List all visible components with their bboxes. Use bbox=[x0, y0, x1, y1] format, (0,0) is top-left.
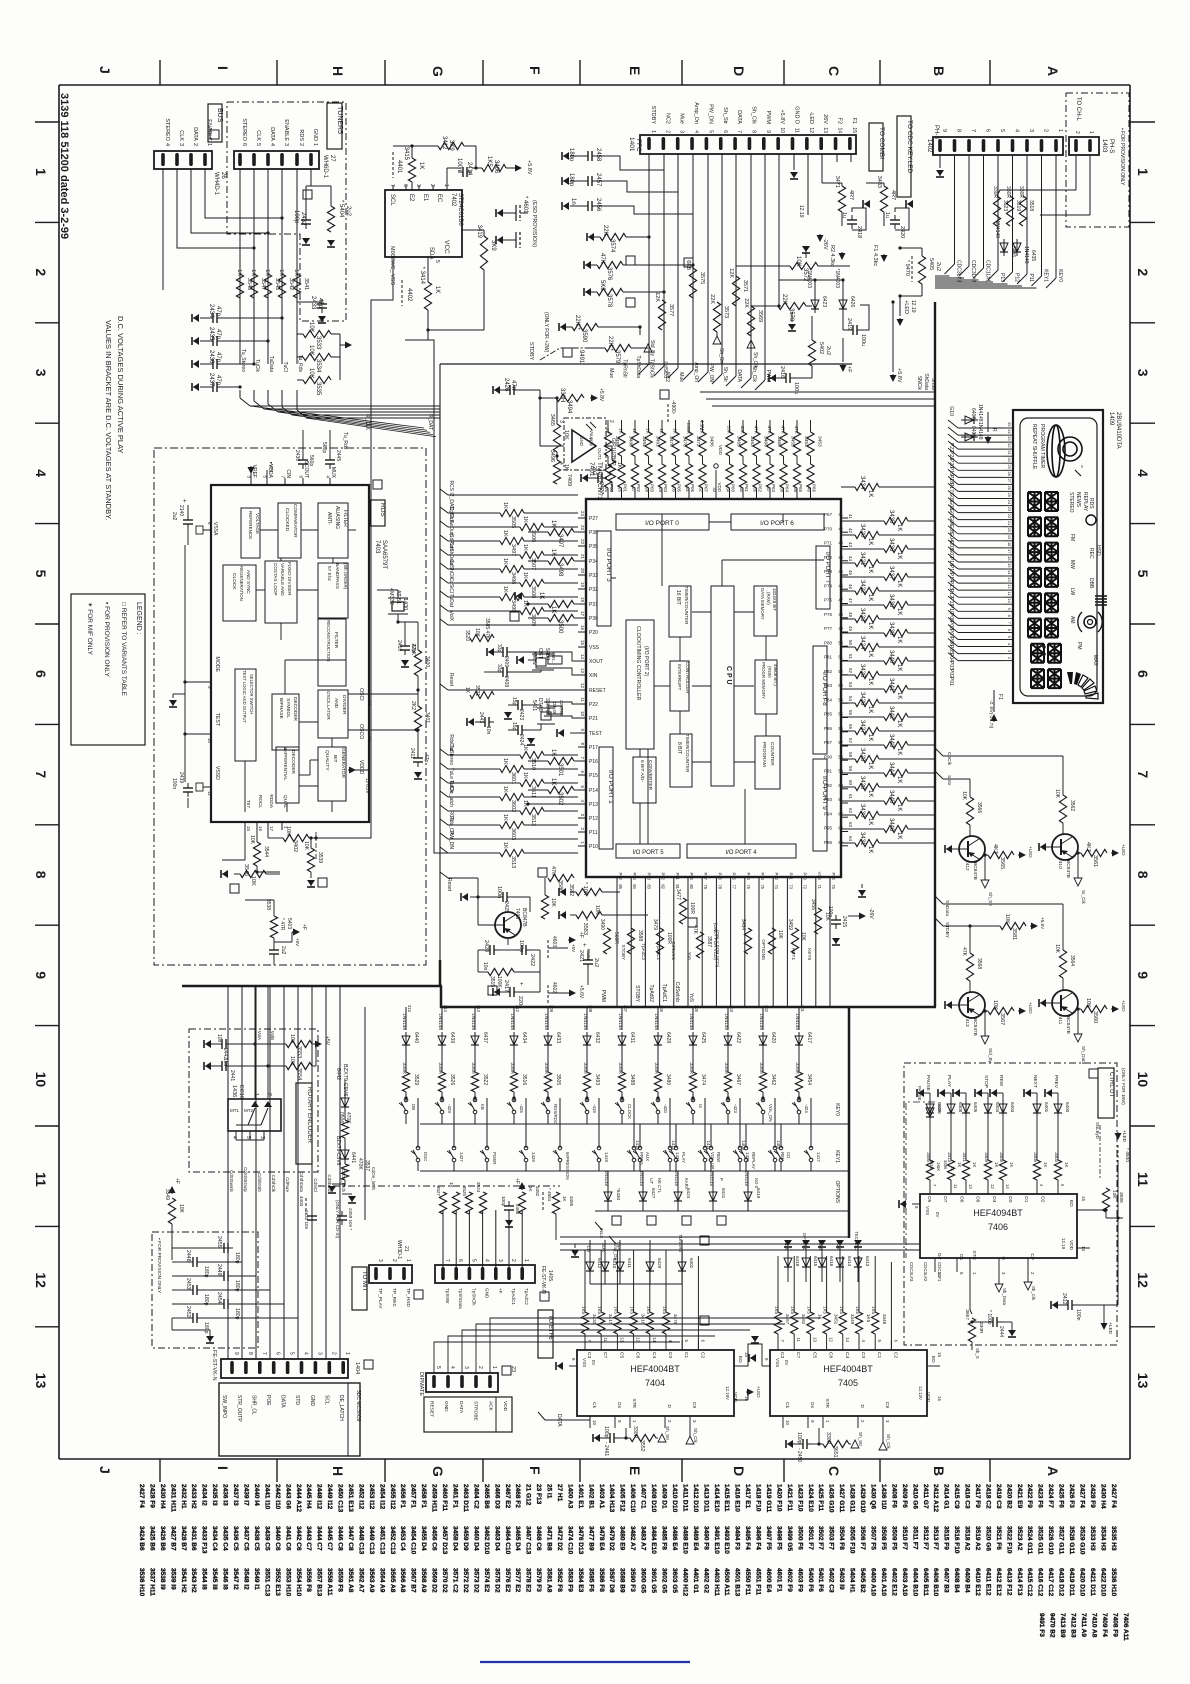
capacitor 33p 2408 bbox=[498, 671, 503, 673]
resistor 330R 3462 bbox=[759, 1072, 766, 1092]
svg-text:3412: 3412 bbox=[441, 136, 447, 150]
svg-text:DBB: DBB bbox=[1088, 578, 1094, 589]
svg-text:YoS: YoS bbox=[688, 993, 694, 1003]
svg-text:1K: 1K bbox=[522, 544, 528, 551]
svg-text:2431 10n: 2431 10n bbox=[304, 1210, 309, 1230]
svg-text:RDS/RDC: RDS/RDC bbox=[553, 1104, 558, 1124]
wire WH6D-1 gnd pin bbox=[310, 169, 312, 186]
svg-text:3496: 3496 bbox=[549, 450, 555, 462]
svg-text:3505: 3505 bbox=[510, 516, 516, 528]
svg-text:2445: 2445 bbox=[335, 450, 341, 461]
triangle Sh_Str transistor bbox=[984, 855, 986, 880]
svg-text:CdSwInb: CdSwInb bbox=[671, 941, 676, 960]
svg-text:51: 51 bbox=[838, 655, 843, 660]
triangle Sh_Clk 7404 bbox=[686, 1436, 694, 1444]
svg-text:6424: 6424 bbox=[686, 1188, 691, 1199]
svg-text:74: 74 bbox=[774, 884, 779, 889]
svg-text:RDDA: RDDA bbox=[268, 794, 274, 808]
resistor 47K 3587 vertical bbox=[696, 932, 703, 958]
diode 1N4148 6434 bbox=[513, 1032, 515, 1049]
svg-text:3581 A8: 3581 A8 bbox=[546, 1568, 553, 1593]
svg-text:10n: 10n bbox=[485, 726, 491, 735]
svg-text:3490: 3490 bbox=[599, 919, 605, 930]
svg-text:6409 B4: 6409 B4 bbox=[964, 1568, 971, 1593]
CPU box bbox=[711, 586, 734, 786]
svg-text:2: 2 bbox=[429, 184, 435, 187]
svg-text:3497 F5: 3497 F5 bbox=[765, 1526, 772, 1550]
gnd caps group bbox=[171, 1318, 173, 1330]
svg-text:13: 13 bbox=[968, 1184, 973, 1189]
svg-text:P51: P51 bbox=[675, 873, 680, 881]
cap 2418 hook bbox=[852, 208, 866, 230]
svg-text:1409: 1409 bbox=[741, 1140, 746, 1150]
IO PORT 9 box bbox=[813, 759, 827, 851]
svg-text:3561 A8: 3561 A8 bbox=[347, 1568, 354, 1593]
svg-text:3571 C2: 3571 C2 bbox=[452, 1568, 459, 1593]
svg-text:1K: 1K bbox=[250, 269, 256, 276]
svg-text:P40: P40 bbox=[803, 873, 808, 881]
svg-text:C P U: C P U bbox=[725, 666, 732, 685]
svg-text:RECONSTRUCTION: RECONSTRUCTION bbox=[326, 620, 331, 661]
svg-text:3402: 3402 bbox=[292, 840, 298, 852]
svg-text:STR: STR bbox=[631, 1398, 637, 1408]
svg-text:2443 G6: 2443 G6 bbox=[284, 1484, 291, 1509]
svg-text:12.19: 12.19 bbox=[1061, 1238, 1066, 1250]
wires bottom bus rows bbox=[560, 1236, 849, 1238]
diode 1N4148 6440 bbox=[405, 1032, 407, 1049]
svg-text:10n: 10n bbox=[482, 962, 488, 971]
svg-text:330R: 330R bbox=[617, 1063, 623, 1075]
svg-text:12.19: 12.19 bbox=[798, 205, 804, 218]
svg-text:49: 49 bbox=[838, 626, 843, 631]
svg-text:1K: 1K bbox=[867, 566, 873, 573]
resistor 3520 10K bbox=[470, 634, 494, 641]
svg-text:6423: 6423 bbox=[821, 296, 827, 307]
svg-text:TpAdC1: TpAdC1 bbox=[656, 943, 661, 960]
svg-text:1404: 1404 bbox=[354, 1362, 360, 1374]
svg-text:P11: P11 bbox=[1028, 273, 1034, 282]
svg-text:ST24C01B6: ST24C01B6 bbox=[457, 193, 463, 226]
svg-text:KEY1: KEY1 bbox=[1043, 269, 1049, 282]
svg-text:3590: 3590 bbox=[581, 329, 587, 343]
resistor 330R 3467 bbox=[724, 1072, 731, 1092]
svg-text:6403 A10: 6403 A10 bbox=[901, 1568, 908, 1596]
svg-text:7402: 7402 bbox=[450, 193, 456, 207]
svg-text:3583 F9: 3583 F9 bbox=[567, 1568, 574, 1592]
svg-text:PWM: PWM bbox=[600, 990, 606, 1002]
wire t57 rdcl bbox=[244, 830, 246, 860]
DATA MEMORY box bbox=[754, 586, 777, 636]
svg-text:23: 23 bbox=[580, 525, 585, 531]
svg-text:8: 8 bbox=[956, 129, 962, 132]
svg-text:P83: P83 bbox=[824, 683, 833, 688]
svg-text:P42: P42 bbox=[774, 873, 779, 881]
svg-text:▸VP1: ▸VP1 bbox=[269, 462, 274, 473]
svg-text:47K: 47K bbox=[780, 425, 786, 434]
svg-text:54: 54 bbox=[838, 697, 843, 702]
resistor 330R 3474 bbox=[689, 1072, 696, 1092]
svg-text:17: 17 bbox=[580, 611, 585, 617]
capacitor 100p 2461 bbox=[605, 1437, 610, 1439]
svg-text:1405: 1405 bbox=[547, 1270, 553, 1281]
svg-text:3553: 3553 bbox=[296, 1046, 302, 1058]
svg-text:47K: 47K bbox=[599, 253, 605, 264]
resistor 22K 3569 vertical bbox=[747, 306, 754, 336]
svg-text:1406 C10: 1406 C10 bbox=[629, 1484, 636, 1513]
svg-text:▪ FOR PROVISION ONLY: ▪ FOR PROVISION ONLY bbox=[103, 602, 110, 677]
svg-text:3478 E4: 3478 E4 bbox=[598, 1526, 605, 1551]
svg-text:P71: P71 bbox=[824, 541, 833, 546]
ROTARY ENCODER label box bbox=[296, 1083, 312, 1164]
resistor 1K 3501 bbox=[548, 757, 574, 764]
svg-text:3441: 3441 bbox=[888, 678, 894, 692]
svg-text:3441 C6: 3441 C6 bbox=[284, 1526, 291, 1551]
svg-text:1K: 1K bbox=[957, 1162, 962, 1167]
svg-text:2409: 2409 bbox=[503, 656, 509, 667]
svg-text:13: 13 bbox=[1007, 577, 1012, 582]
svg-text:10K: 10K bbox=[726, 425, 732, 434]
blue underline artifact bbox=[480, 1661, 690, 1663]
svg-text:SAA6579T: SAA6579T bbox=[381, 540, 387, 569]
svg-text:2461 F1: 2461 F1 bbox=[452, 1484, 459, 1508]
svg-text:P94: P94 bbox=[824, 811, 833, 816]
svg-text:3507 F5: 3507 F5 bbox=[870, 1526, 877, 1550]
svg-text:O0: O0 bbox=[1007, 1196, 1013, 1203]
svg-text:3465 D4: 3465 D4 bbox=[514, 1526, 521, 1551]
svg-text:Amp_On: Amp_On bbox=[693, 102, 699, 124]
svg-text:3485: 3485 bbox=[569, 1196, 574, 1207]
resistor bank 1K 3434-3447 rows bbox=[855, 483, 879, 490]
capacitor 2420 10n bbox=[485, 949, 490, 951]
resistor 47K 3568 vertical bbox=[966, 953, 973, 981]
svg-text:3494: 3494 bbox=[566, 400, 572, 414]
svg-text:3578 E2: 3578 E2 bbox=[525, 1568, 532, 1593]
svg-text:21: 21 bbox=[580, 554, 585, 560]
svg-text:1N4148: 1N4148 bbox=[1023, 246, 1029, 264]
resistor 3538 47R and 5403 2u2 bbox=[270, 916, 277, 938]
svg-text:NO-S: NO-S bbox=[754, 1178, 759, 1189]
resistor 330R 3480 bbox=[654, 1072, 661, 1092]
capacitor 2414 100n bbox=[458, 171, 463, 173]
svg-text:P46: P46 bbox=[717, 873, 722, 881]
svg-text:3549: 3549 bbox=[164, 1189, 170, 1200]
svg-text:3567 B7: 3567 B7 bbox=[410, 1568, 417, 1593]
svg-text:R2 4.3kc: R2 4.3kc bbox=[829, 245, 835, 267]
resistor 10n 3515 100K bbox=[488, 968, 514, 975]
svg-text:13: 13 bbox=[822, 127, 828, 133]
key column wire 308 bbox=[586, 1007, 588, 1030]
svg-text:7408: 7408 bbox=[514, 908, 520, 919]
svg-text:G: G bbox=[430, 1466, 446, 1477]
resistor 3465 10K vertical bbox=[553, 424, 560, 452]
svg-text:5: 5 bbox=[1135, 570, 1151, 578]
svg-text:3448 C13: 3448 C13 bbox=[357, 1526, 364, 1555]
svg-text:3449: 3449 bbox=[850, 1314, 855, 1325]
gnd 2425 bbox=[462, 896, 468, 898]
svg-text:3: 3 bbox=[1028, 129, 1034, 132]
svg-text:7412 B3: 7412 B3 bbox=[1070, 1613, 1077, 1638]
svg-text:3564: 3564 bbox=[1069, 955, 1075, 966]
svg-text:2459 H11: 2459 H11 bbox=[431, 1484, 438, 1512]
svg-text:3554 H10: 3554 H10 bbox=[295, 1568, 302, 1597]
svg-text:ShData: ShData bbox=[944, 900, 950, 916]
svg-text:2420 B2: 2420 B2 bbox=[1005, 1484, 1012, 1509]
svg-text:STOBY: STOBY bbox=[621, 945, 626, 961]
svg-text:1426 G10: 1426 G10 bbox=[828, 1484, 835, 1513]
svg-text:(RAM): (RAM) bbox=[766, 592, 771, 605]
svg-text:47p: 47p bbox=[215, 306, 221, 317]
svg-text:11: 11 bbox=[33, 1172, 49, 1187]
svg-text:Sh_Str: Sh_Str bbox=[722, 107, 728, 124]
svg-text:1K: 1K bbox=[867, 818, 873, 825]
RDS chip box 7403 SAA6579T bbox=[211, 485, 369, 822]
svg-text:PWM: PWM bbox=[765, 370, 771, 382]
svg-text:E1: E1 bbox=[422, 194, 428, 202]
svg-text:T57: T57 bbox=[245, 800, 251, 809]
svg-text:56: 56 bbox=[838, 726, 843, 731]
svg-text:2445 H4: 2445 H4 bbox=[305, 1484, 312, 1509]
svg-text:VSS: VSS bbox=[589, 645, 600, 651]
svg-text:P44: P44 bbox=[746, 873, 751, 881]
svg-text:32K768: 32K768 bbox=[559, 700, 564, 716]
svg-text:P27: P27 bbox=[589, 516, 598, 522]
svg-text:3471: 3471 bbox=[834, 176, 840, 188]
svg-text:3539: 3539 bbox=[317, 852, 323, 863]
square WH3D bbox=[414, 1290, 423, 1299]
svg-text:10K: 10K bbox=[289, 1056, 295, 1066]
svg-text:44: 44 bbox=[838, 555, 843, 560]
svg-text:STEREO: STEREO bbox=[241, 118, 247, 141]
svg-text:2: 2 bbox=[1043, 129, 1049, 132]
svg-text:3557 B13: 3557 B13 bbox=[316, 1568, 323, 1597]
svg-text:11: 11 bbox=[1135, 1172, 1151, 1187]
svg-text:1N4148: 1N4148 bbox=[794, 1013, 800, 1030]
svg-text:PROGR MEMORY: PROGR MEMORY bbox=[761, 662, 766, 699]
svg-text:16: 16 bbox=[937, 1396, 942, 1401]
svg-text:VSS: VSS bbox=[775, 1358, 780, 1367]
svg-text:P43: P43 bbox=[760, 873, 765, 881]
svg-text:1N4148: 1N4148 bbox=[977, 404, 983, 422]
svg-text:6412 E12: 6412 E12 bbox=[995, 1568, 1002, 1596]
svg-text:3511: 3511 bbox=[530, 786, 536, 798]
svg-text:ROTARY ENCODER: ROTARY ENCODER bbox=[306, 1087, 312, 1144]
svg-text:3562: 3562 bbox=[1069, 800, 1075, 811]
svg-text:3508: 3508 bbox=[530, 586, 536, 598]
svg-text:6: 6 bbox=[1135, 670, 1151, 678]
encoder 1436 EC16 bbox=[228, 1099, 281, 1131]
svg-text:2449: 2449 bbox=[216, 1264, 222, 1276]
svg-text:B: B bbox=[931, 66, 947, 76]
svg-text:D: D bbox=[859, 1405, 865, 1409]
svg-text:7: 7 bbox=[1135, 770, 1151, 778]
svg-text:3456: 3456 bbox=[810, 899, 816, 910]
op-amp 7409 GIR1U2B0P bbox=[564, 418, 606, 470]
svg-text:PH-S: PH-S bbox=[933, 125, 939, 139]
svg-text:3439: 3439 bbox=[888, 622, 894, 636]
svg-text:1N4148: 1N4148 bbox=[401, 1013, 407, 1030]
svg-text:3545 I8: 3545 I8 bbox=[211, 1568, 218, 1590]
svg-text:-420: -420 bbox=[663, 1104, 668, 1113]
svg-text:7: 7 bbox=[970, 129, 976, 132]
svg-text:46: 46 bbox=[838, 583, 843, 588]
svg-text:P86: P86 bbox=[824, 726, 833, 731]
svg-text:7: 7 bbox=[444, 1259, 450, 1262]
svg-text:DATA: DATA bbox=[556, 1414, 562, 1427]
capacitor 2425 100n bbox=[498, 896, 503, 898]
display bus thick vertical bbox=[934, 302, 936, 1007]
dbb bars icon bbox=[1095, 595, 1107, 597]
svg-text:8: 8 bbox=[247, 1352, 253, 1355]
svg-text:DATA: DATA bbox=[736, 110, 742, 124]
svg-text:2427 F4: 2427 F4 bbox=[1079, 1484, 1086, 1508]
TO MIT box bbox=[352, 1267, 367, 1310]
arrow +LED 7404 bbox=[734, 1399, 748, 1401]
svg-text:DIVIDER: DIVIDER bbox=[341, 695, 347, 715]
pin VSSA bbox=[203, 529, 211, 531]
svg-text:6440: 6440 bbox=[413, 1032, 419, 1043]
svg-text:P01: P01 bbox=[948, 677, 954, 686]
svg-text:Oe': Oe' bbox=[936, 1253, 942, 1260]
svg-text:Sh_Clk: Sh_Clk bbox=[1031, 1286, 1036, 1301]
svg-text:3426: 3426 bbox=[859, 692, 865, 706]
svg-text:41: 41 bbox=[848, 514, 853, 520]
svg-text:DECODER: DECODER bbox=[290, 750, 296, 775]
svg-text:+LED: +LED bbox=[756, 1386, 761, 1398]
svg-text:CdSwInb: CdSwInb bbox=[674, 982, 680, 1003]
svg-text:RCS: RCS bbox=[448, 480, 454, 491]
svg-text:3: 3 bbox=[1135, 369, 1151, 377]
diode 6407 1N4148 bbox=[961, 419, 978, 421]
signal bus vertical x440 bbox=[439, 364, 441, 960]
svg-text:2440 I4: 2440 I4 bbox=[253, 1484, 260, 1506]
svg-text:12K: 12K bbox=[728, 268, 734, 278]
capacitor 2443 10n bbox=[480, 721, 485, 723]
zener chain wires bbox=[344, 1086, 346, 1094]
svg-text:3651: 3651 bbox=[832, 1446, 838, 1458]
svg-text:VolX: VolX bbox=[448, 611, 454, 622]
svg-text:ACK: ACK bbox=[487, 1401, 493, 1412]
svg-text:-418: -418 bbox=[592, 1104, 597, 1113]
svg-text:2444: 2444 bbox=[998, 1326, 1004, 1337]
svg-text:6415 C12: 6415 C12 bbox=[1026, 1568, 1033, 1597]
svg-text:5401 F6: 5401 F6 bbox=[817, 1568, 824, 1592]
svg-text:2419: 2419 bbox=[846, 318, 852, 330]
grid tick marks bottom bbox=[159, 1459, 161, 1482]
svg-text:1K: 1K bbox=[418, 162, 424, 169]
wires encoder rc bbox=[231, 1043, 255, 1045]
svg-text:47: 47 bbox=[848, 598, 853, 604]
diodes 1N4148 6436 6435 bbox=[1003, 239, 1005, 256]
connector WH3D-1 21 bbox=[369, 1265, 412, 1283]
svg-text:Sh_Str: Sh_Str bbox=[858, 1432, 863, 1447]
capacitor 2415 100n bbox=[835, 915, 837, 920]
MAX fan segments bbox=[1067, 672, 1098, 699]
7405 left pin VSS bbox=[762, 1365, 770, 1367]
svg-text:2423 F6: 2423 F6 bbox=[1037, 1484, 1044, 1508]
HEF4004BT 7404 box bbox=[577, 1350, 734, 1416]
svg-text:7: 7 bbox=[736, 130, 742, 133]
svg-text:100p: 100p bbox=[501, 1196, 506, 1207]
svg-text:23: 23 bbox=[510, 1366, 516, 1372]
svg-text:P10: P10 bbox=[589, 844, 598, 850]
svg-text:6439: 6439 bbox=[449, 1032, 455, 1043]
svg-text:6: 6 bbox=[457, 1259, 463, 1262]
svg-text:1K: 1K bbox=[896, 580, 902, 587]
svg-text:301: 301 bbox=[800, 1005, 805, 1013]
svg-text:21: 21 bbox=[1007, 521, 1012, 526]
resistor 22K 3579 bbox=[605, 344, 631, 351]
svg-text:2439 I7: 2439 I7 bbox=[243, 1484, 250, 1506]
svg-text:19: 19 bbox=[1007, 535, 1012, 540]
svg-text:12 0.2V: 12 0.2V bbox=[365, 778, 370, 794]
svg-text:CDC3L#3: CDC3L#3 bbox=[956, 260, 962, 282]
svg-text:*1N4003: *1N4003 bbox=[834, 269, 840, 289]
svg-text:57: 57 bbox=[848, 738, 853, 744]
svg-text:2425 F6: 2425 F6 bbox=[1058, 1484, 1065, 1508]
diode 1N4003 6423 bbox=[814, 296, 816, 313]
svg-text:58: 58 bbox=[838, 754, 843, 759]
svg-text:AND SYNC: AND SYNC bbox=[246, 570, 251, 594]
svg-text:9491 F3: 9491 F3 bbox=[1038, 1613, 1045, 1637]
svg-text:3139 118 51200 dated 3-2-99: 3139 118 51200 dated 3-2-99 bbox=[58, 93, 70, 239]
svg-text:4601 F1: 4601 F1 bbox=[775, 1568, 782, 1592]
svg-text:3588 B9: 3588 B9 bbox=[619, 1568, 626, 1593]
wires low osc bbox=[527, 704, 541, 706]
svg-text:6401 A10: 6401 A10 bbox=[880, 1568, 887, 1596]
svg-text:10n: 10n bbox=[222, 1058, 228, 1067]
CPU right pin rows bbox=[841, 517, 848, 519]
svg-text:100n: 100n bbox=[456, 158, 462, 171]
svg-text:13: 13 bbox=[1135, 1373, 1151, 1389]
svg-text:I/O PORT 6: I/O PORT 6 bbox=[760, 520, 794, 527]
svg-text:P17: P17 bbox=[948, 483, 954, 492]
svg-text:5403: 5403 bbox=[286, 918, 292, 929]
svg-text:2424: 2424 bbox=[518, 734, 524, 745]
svg-text:P12: P12 bbox=[1014, 273, 1020, 282]
svg-text:2458 F1: 2458 F1 bbox=[420, 1484, 427, 1508]
svg-text:1K: 1K bbox=[1009, 1162, 1014, 1167]
REFERENCE VOLTAGE box bbox=[241, 508, 260, 558]
resistor 220K 3400 vertical bbox=[414, 650, 421, 676]
svg-text:3546: 3546 bbox=[243, 864, 249, 876]
capacitor 2441 10n bbox=[217, 1065, 222, 1067]
svg-text:1411: 1411 bbox=[706, 1141, 711, 1151]
svg-text:3479: 3479 bbox=[652, 919, 658, 930]
svg-text:15: 15 bbox=[937, 1352, 942, 1357]
svg-text:3538: 3538 bbox=[265, 899, 271, 910]
variant square near BUS bbox=[210, 130, 219, 139]
svg-text:2436 I3: 2436 I3 bbox=[222, 1484, 229, 1506]
svg-text:3529 G10: 3529 G10 bbox=[1079, 1526, 1086, 1555]
svg-text:10K: 10K bbox=[474, 628, 480, 638]
capacitor 100n 2422 bbox=[517, 949, 522, 951]
resistor 10K 3564 vertical bbox=[1059, 950, 1066, 978]
svg-text:330R: 330R bbox=[653, 1063, 659, 1075]
label box TO CDC KEY.LED bbox=[897, 116, 911, 197]
svg-text:CLOCKED: CLOCKED bbox=[284, 508, 290, 532]
capacitor 2410 47p bbox=[404, 641, 406, 646]
thick bus y986 bbox=[182, 985, 442, 988]
svg-text:4603 F9: 4603 F9 bbox=[796, 1568, 803, 1592]
svg-text:20: 20 bbox=[580, 568, 585, 574]
diode 1N4148 6422 bbox=[727, 1032, 729, 1049]
svg-text:1419 G11: 1419 G11 bbox=[765, 1484, 772, 1513]
svg-text:3506: 3506 bbox=[530, 530, 536, 542]
svg-text:60: 60 bbox=[848, 780, 853, 786]
connector 1403 PH-S bbox=[1069, 137, 1099, 155]
svg-text:3465: 3465 bbox=[549, 414, 555, 426]
svg-text:7406 A11: 7406 A11 bbox=[1122, 1613, 1129, 1641]
